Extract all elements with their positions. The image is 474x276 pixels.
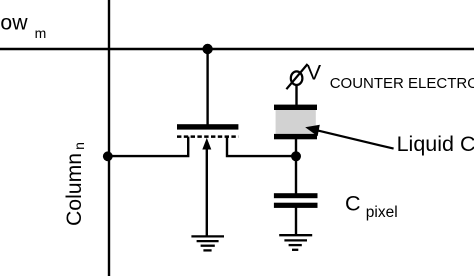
annotation arrow: pointer line to liquid crystal <box>317 130 394 148</box>
ground GND2 (below C_pixel) <box>279 235 312 250</box>
svg-text:Rowm: Rowm <box>0 12 46 41</box>
wire: Column bus line (vertical) <box>108 0 110 276</box>
transistor T1: substrate arrow head <box>202 138 211 150</box>
capacitor LC: top plate (counter electrode) <box>274 105 317 110</box>
wire: gate lead from row line to TFT gate <box>206 49 208 126</box>
voltage source V: slash <box>286 64 307 89</box>
capacitor C_pixel: top plate <box>274 193 318 198</box>
wire: V source to LC top plate <box>295 85 297 107</box>
wire: drain stub (right, down from channel then to pixel node) <box>227 137 296 157</box>
capacitor LC: liquid crystal body <box>276 110 316 134</box>
wire: pixel node to C_pixel <box>295 156 297 194</box>
node: pixel storage junction <box>291 151 301 161</box>
svg-text:COUNTER ELECTRODE: COUNTER ELECTRODE <box>330 75 474 92</box>
node: column/source junction <box>103 151 113 161</box>
voltage source V: circle <box>291 71 303 85</box>
annotation arrow: head <box>305 125 320 137</box>
transistor T1: channel (dashed) <box>177 135 238 138</box>
wire: C_pixel to ground <box>295 208 297 236</box>
capacitor LC: bottom plate <box>274 134 317 139</box>
transistor T1: gate bar <box>177 124 238 129</box>
transistor T1: substrate arrow shaft <box>206 147 208 236</box>
svg-text:Columnn: Columnn <box>63 142 87 226</box>
wire: Row bus line (horizontal) <box>0 48 474 50</box>
wire: LC bottom plate to pixel node <box>295 139 297 156</box>
svg-text:Cpixel: Cpixel <box>345 191 398 221</box>
wire: source stub (left, down from channel) <box>109 137 188 157</box>
svg-text:V: V <box>307 60 322 84</box>
node: row/gate junction <box>202 44 212 54</box>
ground GND1 (below transistor) <box>191 236 224 250</box>
capacitor C_pixel: bottom plate <box>274 203 318 208</box>
svg-text:Liquid Crystal: Liquid Crystal <box>397 132 474 156</box>
